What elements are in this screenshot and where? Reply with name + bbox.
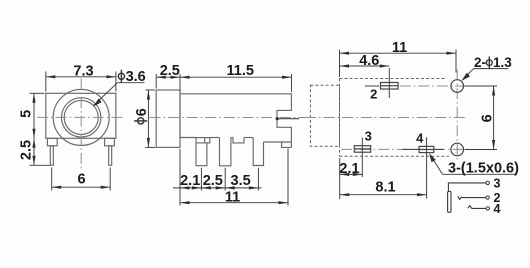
dimension 5 (front height)	[18, 93, 44, 138]
dimension 8.1 (pad 4 offset)	[340, 179, 427, 196]
dimension 2.5 (pin pitch)	[201, 168, 246, 191]
svg-text:4: 4	[494, 202, 501, 216]
front view ring inner (phi 3.6 hole)	[64, 100, 98, 134]
svg-text:11: 11	[392, 40, 407, 56]
pad 3	[354, 128, 372, 177]
svg-text:2.1: 2.1	[180, 173, 200, 189]
front view horizontal centerline	[37, 116, 126, 118]
dimension 2.1 (pin offset)	[173, 149, 204, 206]
svg-text:2.5: 2.5	[160, 63, 180, 79]
front view right pin	[109, 146, 112, 165]
dimension 11.5 (body length)	[180, 63, 292, 92]
footprint body outline (hidden)	[340, 79, 450, 157]
schematic contact 2 wire (tip spring)	[458, 191, 501, 205]
pad 2	[370, 68, 398, 101]
svg-text:6: 6	[134, 108, 150, 116]
mounting hole bottom (phi 1.3)	[451, 143, 464, 156]
svg-text:7.3: 7.3	[73, 63, 93, 79]
svg-text:2.5: 2.5	[18, 140, 34, 160]
side view body	[180, 94, 291, 148]
svg-text:2.5: 2.5	[203, 173, 223, 189]
svg-text:11: 11	[225, 190, 240, 206]
side view pin 3	[253, 138, 263, 166]
side view right tab	[282, 142, 292, 147]
svg-text:3.6: 3.6	[126, 69, 146, 85]
footprint barrel outline (hidden)	[310, 85, 339, 146]
svg-text:2-: 2-	[474, 55, 486, 70]
svg-text:4.6: 4.6	[359, 53, 379, 69]
svg-text:6: 6	[77, 171, 85, 187]
svg-text:3-(1.5x0.6): 3-(1.5x0.6)	[448, 161, 519, 177]
leader 3-(1.5x0.6) slots	[429, 153, 519, 176]
leader 2-phi1.3	[462, 55, 513, 81]
side view contact tab in notch	[276, 117, 299, 120]
front view left foot	[47, 138, 57, 146]
svg-text:11.5: 11.5	[226, 63, 253, 79]
svg-text:2: 2	[370, 86, 377, 101]
dimension 7.3 (front width)	[46, 63, 116, 91]
dimension 2.5 (collar width)	[156, 63, 180, 92]
dimension 2.5 (front pin length)	[18, 138, 50, 165]
dimension phi3.6 leader	[93, 69, 146, 106]
dimension 6 (front pin spacing)	[52, 168, 110, 191]
dimension phi6 (collar)	[134, 90, 155, 147]
svg-text:6: 6	[480, 114, 496, 122]
side view centerline	[150, 117, 306, 119]
front view right foot	[105, 138, 115, 146]
svg-text:3.5: 3.5	[231, 173, 251, 189]
svg-text:3: 3	[494, 176, 501, 190]
footprint circles centerline	[456, 70, 458, 163]
dimension 4.6 (pad 2 offset)	[340, 53, 390, 69]
front view ring outer	[61, 98, 100, 137]
svg-text:5: 5	[18, 110, 34, 118]
dimension 3.5 (pin pitch)	[225, 168, 261, 191]
dimension 11 (footprint width)	[340, 40, 457, 77]
front view vertical centerline	[80, 79, 82, 171]
schematic sleeve bar	[448, 191, 451, 212]
front view left pin	[50, 146, 53, 165]
side view pin 2	[220, 138, 231, 166]
svg-text:1.3: 1.3	[493, 55, 512, 70]
svg-text:3: 3	[365, 128, 372, 143]
side view collar	[156, 90, 180, 147]
side view pin 1	[196, 138, 210, 166]
footprint top row centerline	[365, 85, 471, 87]
svg-text:4: 4	[416, 131, 424, 146]
dimension 11 (side overall)	[180, 149, 288, 206]
pad 4	[403, 131, 444, 199]
mounting hole top (phi 1.3)	[451, 80, 464, 93]
schematic contact 4 wire (switch)	[468, 202, 501, 216]
footprint main centerline	[305, 117, 468, 119]
front view outer circle	[53, 89, 109, 145]
svg-text:2.1: 2.1	[339, 161, 359, 177]
svg-text:8.1: 8.1	[375, 179, 395, 195]
dimension 2.1 (footprint pad3 offset)	[339, 158, 362, 199]
dimension 6 (hole spacing)	[465, 86, 498, 150]
front view body	[46, 93, 116, 138]
schematic contact 3 wire	[448, 176, 500, 191]
footprint bottom row centerline	[341, 148, 471, 150]
side view small tab	[233, 138, 244, 143]
